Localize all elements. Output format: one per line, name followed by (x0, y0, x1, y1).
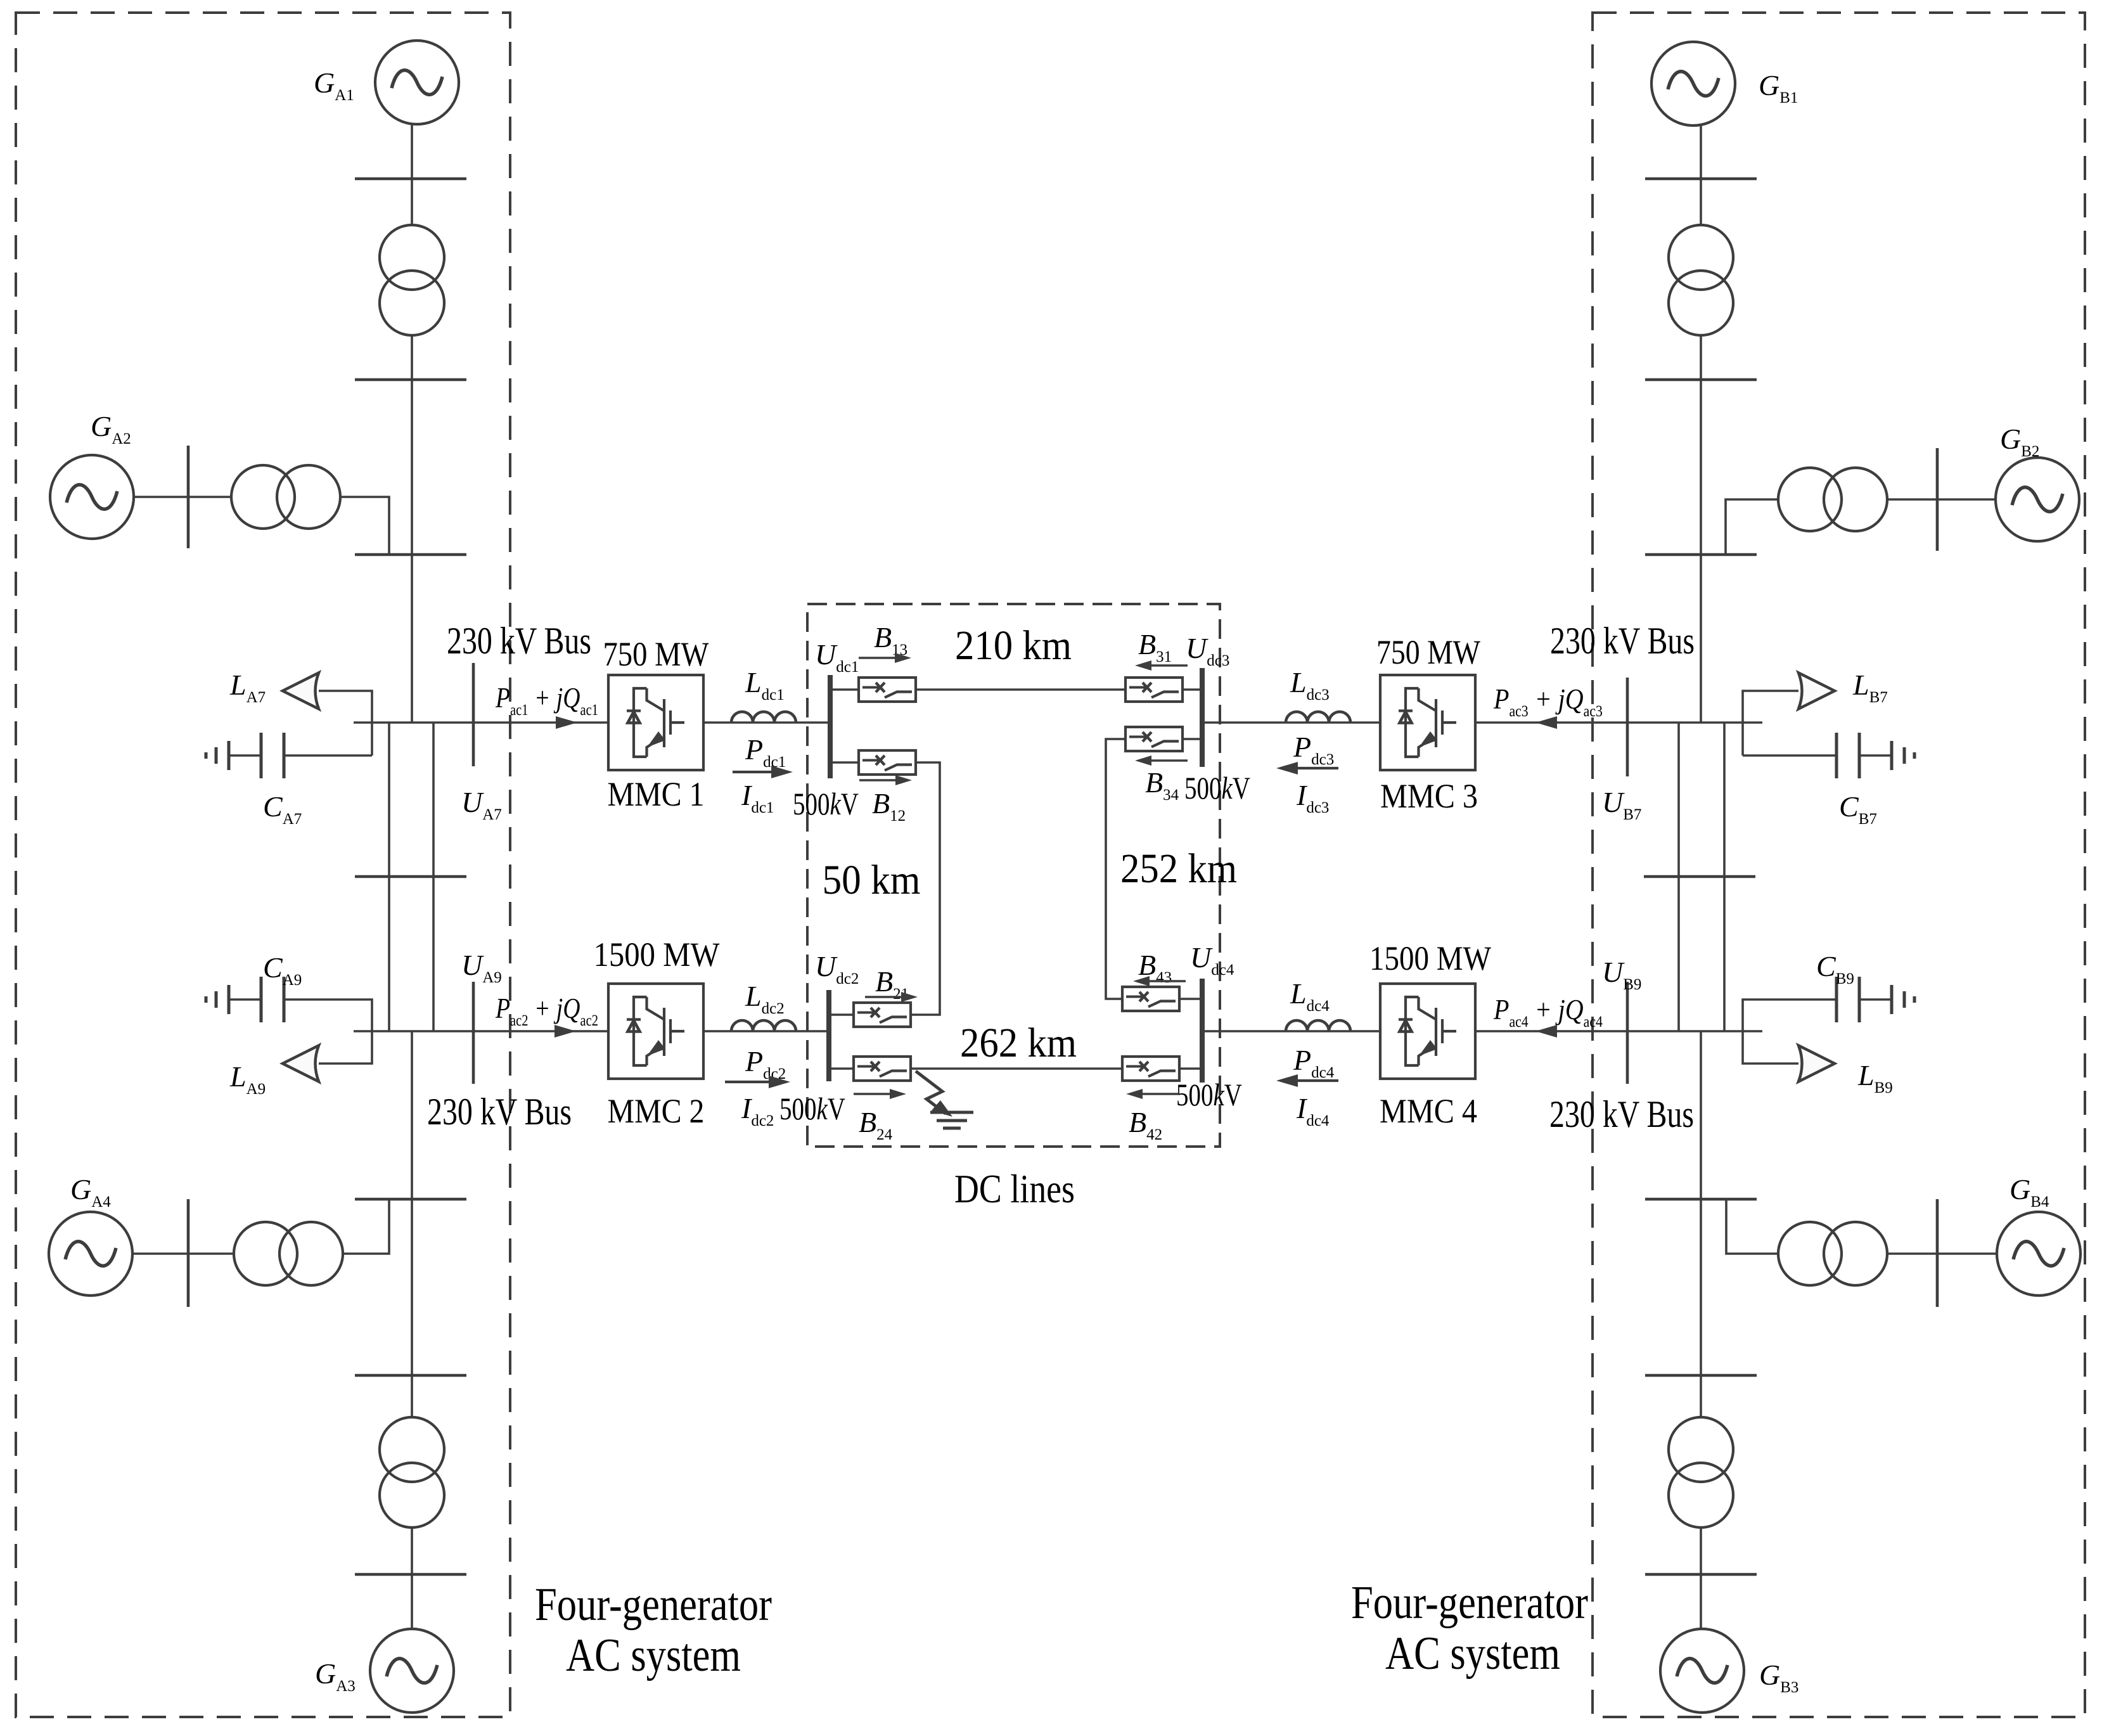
svg-text:Four-generator: Four-generator (1351, 1577, 1588, 1629)
node GB2 bus tick (1936, 448, 1939, 551)
svg-text:230 kV Bus: 230 kV Bus (1550, 620, 1695, 662)
svg-text:1500 MW: 1500 MW (594, 936, 720, 974)
wire TA2 to trunk (340, 497, 389, 555)
arrow Pdc4 (1293, 1079, 1338, 1082)
generator GB1 (1651, 42, 1735, 125)
capacitor CB9 with ground (1743, 1000, 1835, 1031)
arrow B12 (859, 779, 897, 781)
wire TB2 to trunk (1726, 499, 1778, 555)
wire LB7 stub (1743, 691, 1798, 755)
breaker B13 (859, 678, 916, 702)
wire trunk A lower (411, 1031, 413, 1199)
node GA2 bus tick (187, 446, 190, 548)
breaker B24 (854, 1057, 911, 1081)
svg-text:AC system: AC system (566, 1630, 741, 1681)
node arrow Pac1 (556, 716, 577, 729)
ground fault (930, 1111, 973, 1114)
svg-text:MMC 2: MMC 2 (608, 1092, 705, 1130)
fault lightning arrow (916, 1071, 946, 1114)
svg-text:500kV: 500kV (779, 1091, 845, 1126)
svg-text:MMC 1: MMC 1 (608, 775, 705, 813)
generator GA1 (375, 41, 459, 124)
transformer TA4 (234, 1222, 343, 1285)
converter MMC3 (1380, 675, 1475, 770)
generator GB2 (1996, 458, 2079, 541)
wire TA4 to trunk (343, 1199, 389, 1254)
node bus tick B4 (1645, 1198, 1757, 1201)
node UA9 bus tick (472, 982, 475, 1084)
capacitor CA9 with ground (284, 1000, 372, 1031)
wire 252 km line (1106, 739, 1125, 999)
wire GB1 to tick (1700, 125, 1702, 179)
svg-text:MMC 4: MMC 4 (1380, 1092, 1477, 1130)
wire 262 km line (911, 1067, 1122, 1070)
svg-text:500kV: 500kV (1184, 770, 1250, 806)
wire tie line A 7-9 right (432, 723, 435, 1031)
wire LA7 stub (319, 691, 372, 755)
node bus tick B3-bottom (1645, 1573, 1757, 1576)
node GA4 bus tick (187, 1199, 190, 1307)
arrow Pdc2 (725, 1081, 774, 1083)
svg-text:230 kV Bus: 230 kV Bus (1549, 1093, 1694, 1135)
converter MMC1 (608, 675, 703, 770)
load arrow LA9 (283, 1046, 319, 1082)
node bus tick A4 (355, 1198, 466, 1201)
transformer TA3 (380, 1417, 444, 1527)
dashed box: right four-generator AC system (1593, 13, 2085, 1717)
wire tick to TB3 (1700, 1375, 1702, 1418)
wire 210 km line (916, 688, 1125, 691)
node DC bus Udc3 (1200, 668, 1205, 767)
node bus tick B2 (1645, 553, 1757, 556)
svg-text:50 km: 50 km (823, 857, 921, 903)
node DC bus Udc4 (1200, 979, 1205, 1083)
arrow Pdc1 (733, 771, 776, 773)
wire Udc4 to B43 (1179, 998, 1200, 1000)
wire GA1 to tick (411, 124, 413, 179)
node arrow Pac2 (554, 1025, 576, 1038)
breaker B43 (1122, 987, 1179, 1011)
wire trunk B lower (1700, 1031, 1702, 1199)
wire tick to GA3 (411, 1574, 413, 1629)
svg-text:262 km: 262 km (960, 1020, 1077, 1066)
arrow B34 (1150, 759, 1188, 762)
node UB9 bus tick (1626, 982, 1629, 1084)
node bus tick A3-bottom (355, 1573, 466, 1576)
transformer TA1 (380, 225, 444, 335)
transformer TB4 (1778, 1222, 1887, 1285)
svg-text:500kV: 500kV (1176, 1077, 1242, 1112)
node bus tick B8 mid (1644, 875, 1755, 878)
arrow B13 (859, 657, 896, 659)
arrow B42 (1141, 1093, 1179, 1095)
wire tie line B 7-9 left (1677, 723, 1680, 1031)
node bus tick B1-bottom (1645, 378, 1757, 382)
wire Udc2 to B24 (831, 1067, 854, 1070)
breaker B34 (1125, 727, 1183, 751)
node arrow Pac4 (1535, 1025, 1557, 1038)
svg-text:Four-generator: Four-generator (535, 1579, 772, 1631)
wire tick to TA3 (411, 1375, 413, 1418)
node bus tick A8 mid (355, 875, 466, 878)
wire TA3 to tick (411, 1527, 413, 1574)
wire GB2 to transformer (1887, 498, 1996, 501)
svg-text:1500 MW: 1500 MW (1369, 939, 1491, 977)
converter MMC4 (1380, 984, 1475, 1079)
dashed box: left four-generator AC system (16, 13, 510, 1717)
svg-text:230 kV Bus: 230 kV Bus (427, 1091, 572, 1133)
wire TB3 to tick (1700, 1527, 1702, 1574)
wire TB4 to trunk (1726, 1199, 1778, 1254)
generator GA2 (50, 455, 134, 539)
wire trunk B upper (1700, 380, 1702, 723)
breaker B21 (854, 1003, 911, 1027)
wire GA2 to transformer (134, 496, 231, 498)
wire TA1 to tick (411, 335, 413, 380)
converter MMC2 (608, 984, 703, 1079)
wire trunk A bottom1 (411, 1199, 413, 1375)
generator GA3 (370, 1629, 454, 1713)
wire Udc2 to B21 (831, 1013, 854, 1016)
node DC bus Udc2 (826, 990, 831, 1081)
capacitor CB7 with ground (1743, 754, 1835, 757)
dashed box: DC lines (807, 604, 1220, 1147)
arrow B24 (854, 1093, 891, 1095)
breaker B12 (859, 750, 916, 775)
svg-text:DC lines: DC lines (954, 1166, 1075, 1211)
wire tie line A 7-9 left (388, 723, 390, 1031)
svg-text:230 kV Bus: 230 kV Bus (447, 620, 591, 662)
svg-text:500kV: 500kV (793, 786, 859, 821)
svg-text:252 km: 252 km (1120, 845, 1237, 892)
svg-text:750 MW: 750 MW (603, 635, 709, 673)
inductor Ldc2 (703, 1030, 829, 1032)
transformer TA2 (231, 465, 340, 529)
transformer TB3 (1669, 1417, 1733, 1527)
wire Udc3 to B34 (1183, 738, 1200, 740)
node DC bus Udc1 (828, 675, 833, 778)
node bus tick B1-top (1645, 177, 1757, 181)
generator GB4 (1997, 1212, 2080, 1296)
wire bus7A line (354, 721, 608, 724)
breaker B42 (1122, 1057, 1179, 1081)
generator GB3 (1660, 1629, 1744, 1713)
node bus tick A1-bottom (355, 378, 466, 382)
transformer TB2 (1778, 468, 1887, 531)
wire 50 km line (911, 762, 940, 1015)
wire tick to transformer TB1 (1700, 179, 1702, 226)
wire LB9 stub (1743, 1031, 1798, 1064)
svg-text:210 km: 210 km (955, 622, 1072, 669)
arrow B43 (1148, 980, 1186, 982)
breaker B31 (1125, 678, 1183, 702)
wire TB1 to tick (1700, 335, 1702, 380)
inductor Ldc4 (1202, 1030, 1380, 1032)
wire Udc1 to B13 (832, 688, 859, 691)
load arrow LB9 (1798, 1046, 1835, 1082)
arrow Pdc3 (1293, 767, 1338, 769)
node bus tick A2 (355, 553, 466, 556)
inductor Ldc3 (1202, 721, 1380, 724)
node UA7 bus tick (472, 663, 475, 766)
transformer TB1 (1669, 225, 1733, 335)
arrow B31 (1150, 664, 1188, 667)
generator GA4 (49, 1212, 132, 1296)
wire Udc4 to B42 (1179, 1067, 1200, 1070)
wire bus9B line (1475, 1030, 1762, 1032)
wire trunk A upper (411, 380, 413, 723)
svg-text:750 MW: 750 MW (1376, 633, 1480, 671)
wire bus9A line (354, 1030, 608, 1032)
node UB7 bus tick (1626, 678, 1629, 776)
arrow B21 (865, 996, 902, 998)
node GB4 bus tick (1936, 1199, 1939, 1307)
wire GA4 to transformer (132, 1252, 234, 1255)
load arrow LB7 (1798, 673, 1835, 709)
wire Udc3 to B31 (1183, 688, 1200, 691)
node bus tick B3-top (1645, 1374, 1757, 1377)
wire trunk B bottom1 (1700, 1199, 1702, 1375)
svg-text:AC system: AC system (1385, 1628, 1560, 1680)
load arrow LA7 (283, 673, 319, 709)
svg-text:MMC 3: MMC 3 (1380, 777, 1478, 815)
node bus tick A1-top (355, 177, 466, 181)
wire Udc1 to B12 (832, 761, 859, 764)
inductor Ldc1 (703, 721, 830, 724)
wire tie line B 7-9 right (1723, 723, 1726, 1031)
capacitor CA7 with ground (284, 754, 372, 757)
wire bus7B line (1475, 721, 1762, 724)
wire LA9 stub (319, 1031, 372, 1064)
wire tick to GB3 (1700, 1574, 1702, 1629)
node arrow Pac3 (1535, 716, 1557, 729)
wire GB4 to transformer (1887, 1252, 1997, 1255)
node bus tick A3-top (355, 1374, 466, 1377)
wire tick to transformer TA1 (411, 179, 413, 226)
